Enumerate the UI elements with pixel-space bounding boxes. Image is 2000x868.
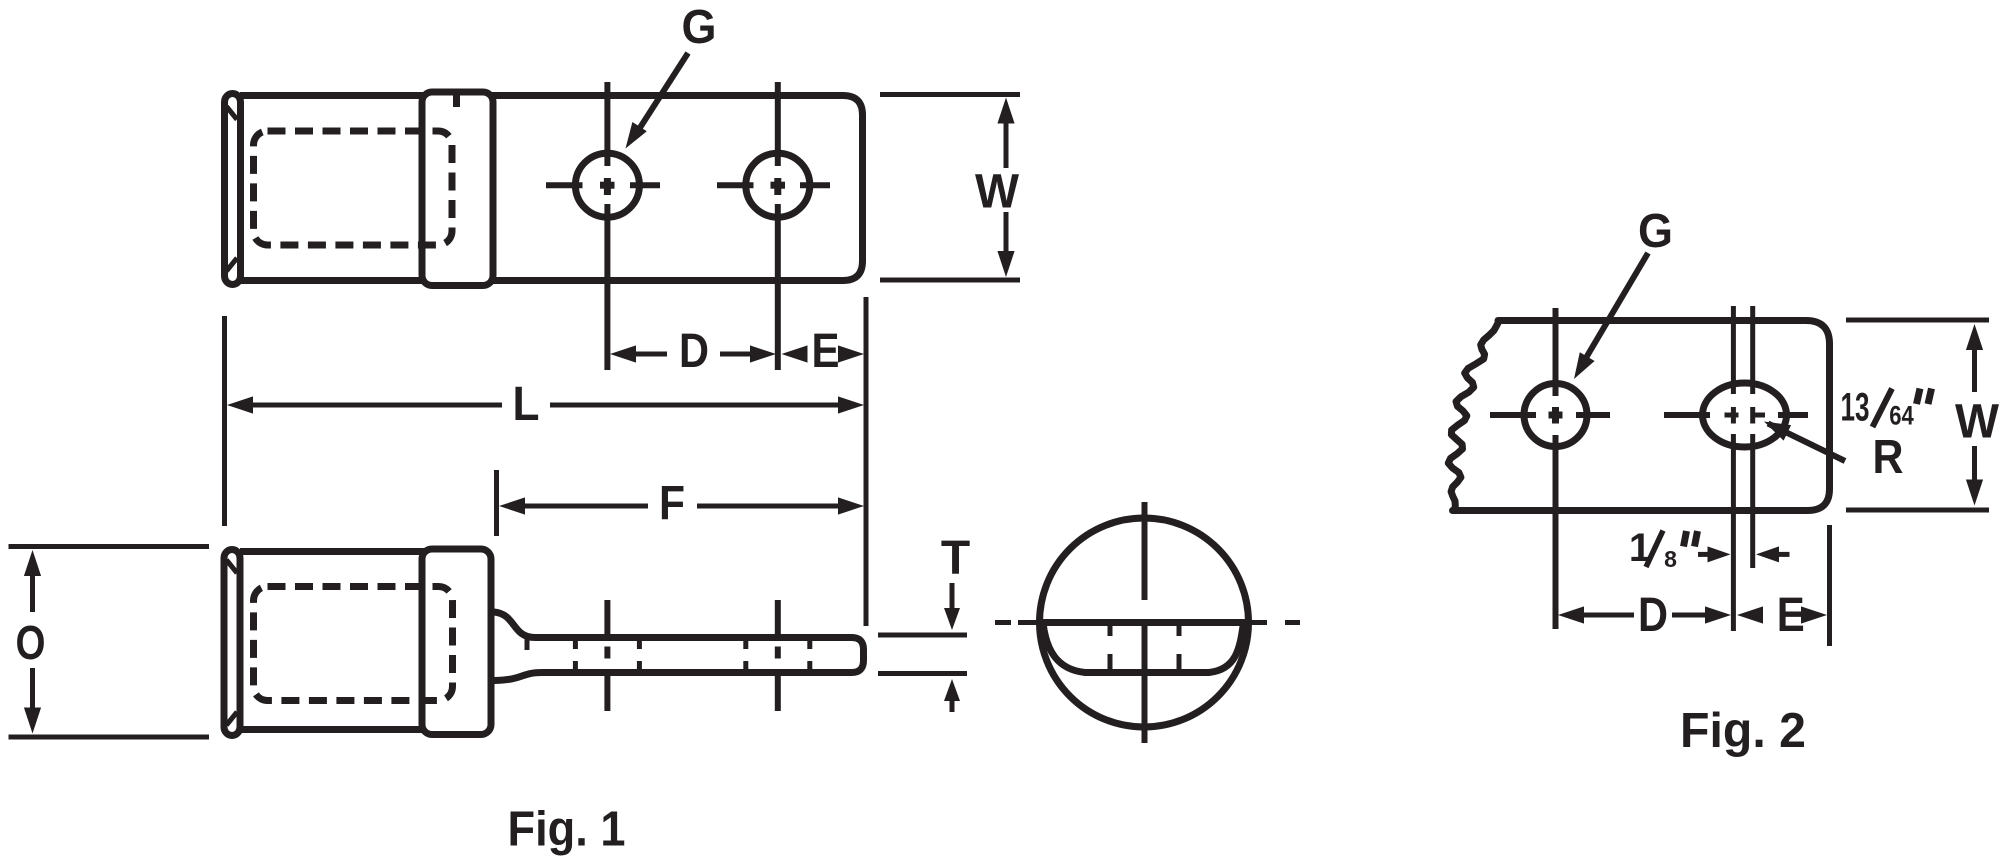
svg-text:E: E [1777, 589, 1805, 642]
hole G1 center plus [600, 182, 615, 189]
svg-text:F: F [659, 477, 685, 530]
side view cap (rolled end) [224, 550, 240, 736]
dimension D (Fig.2) [1558, 606, 1584, 623]
crimp sleeve band (top view) [422, 92, 493, 286]
tongue pad outline (top view) [480, 96, 863, 281]
right witness line (pad edge, Fig.1) [864, 297, 869, 626]
svg-text:Fig. 1: Fig. 1 [508, 803, 626, 857]
svg-text:G: G [1638, 205, 1673, 258]
dimension W (Fig.2) extension lines [1846, 318, 1989, 323]
hole centerlines crossing tongue (side view) [604, 600, 610, 634]
end view vertical centerline [1142, 502, 1148, 600]
Fig.2 hole G circle [1524, 384, 1587, 447]
cap roll tick top [227, 107, 238, 120]
barrel bottom edge (top view) [240, 277, 430, 284]
hole G1 vertical centerline / witness [604, 82, 610, 166]
Fig.2 pad outline with break line [1448, 321, 1829, 511]
dimension L line [227, 396, 253, 413]
Fig.2 hole G vertical centerline / witness [1553, 308, 1559, 396]
side cap tick bottom [227, 712, 238, 725]
side neck and tongue outline [494, 612, 864, 681]
svg-text:D: D [1638, 589, 1668, 642]
dimension D (Fig.1) [610, 345, 636, 362]
Fig.1 top view: insulation cap (rolled left end) [225, 94, 241, 285]
svg-text:L: L [513, 378, 540, 431]
hole G1b circle (top view, second hole) [746, 153, 810, 217]
1/8 inch arrows [1698, 552, 1710, 557]
dimension E (Fig.2) [1737, 606, 1763, 623]
hidden hole edge ticks on tongue [573, 640, 578, 650]
end view horizontal centerline (dash-dot) [995, 620, 1011, 625]
dimension F line [499, 497, 525, 514]
Fig.2 slot left edge line [1731, 306, 1736, 394]
leader G (Fig.2) [1580, 253, 1648, 368]
svg-text:D: D [679, 325, 709, 378]
side crimp sleeve band [422, 549, 491, 735]
hole G1 horizontal crosshair [546, 182, 583, 188]
dimension L witness left [222, 316, 227, 526]
svg-text:8: 8 [1664, 546, 1677, 572]
svg-text:W: W [975, 166, 1020, 219]
Fig.2 slotted hole (ellipse) [1703, 383, 1787, 447]
dimension F witness [494, 470, 499, 536]
end view hidden seam dashes [1108, 626, 1113, 637]
leader G (Fig.1) [634, 53, 688, 137]
hole G1b center plus [771, 182, 786, 189]
end view circle [1040, 518, 1249, 727]
dimension W (Fig.2) arrows [1966, 324, 1983, 350]
svg-text:E: E [812, 325, 840, 378]
hole G1 circle (top view) [575, 153, 639, 217]
svg-text:W: W [1955, 396, 2000, 449]
svg-text:G: G [682, 1, 717, 54]
side hidden wire barrel (dashed) [254, 587, 453, 701]
hole G1b vertical centerline / witness [775, 82, 781, 166]
svg-text:Fig. 2: Fig. 2 [1680, 704, 1806, 758]
Fig.2 hole G horizontal crosshair [1490, 412, 1536, 418]
svg-text:13: 13 [1841, 386, 1870, 430]
Fig.2 slot right edge line [1750, 306, 1755, 394]
Fig.2 hole G center plus [1549, 412, 1563, 419]
barrel top edge (top view) [240, 92, 430, 99]
hidden seam dash in band [453, 96, 460, 108]
dimension E (Fig.1) [782, 345, 808, 362]
dimension T extension lines [878, 633, 967, 638]
Fig.2 right witness line [1827, 525, 1832, 646]
dimension O arrows [24, 550, 41, 576]
end view crimped barrel cross-section (boat shape) [1043, 623, 1244, 673]
tongue tick at neck [525, 639, 530, 650]
side barrel bottom edge [240, 726, 430, 733]
Fig.2 slotted hole horizontal centerline [1664, 412, 1710, 418]
svg-text:64: 64 [1889, 401, 1914, 431]
hole G1b horizontal crosshair [717, 182, 754, 188]
dimension O extension lines [9, 544, 210, 549]
svg-text:R: R [1873, 431, 1904, 484]
hidden wire barrel (dashed, top view) [254, 131, 453, 245]
dimension W (Fig.1) extension lines [880, 92, 1020, 97]
leader R [1768, 424, 1845, 462]
dimension T arrows [950, 583, 955, 608]
svg-text:O: O [16, 617, 46, 670]
dimension W (Fig.1) arrows and line [997, 98, 1014, 124]
cap roll tick bottom [227, 258, 238, 271]
side barrel top edge [240, 548, 430, 555]
Fig.2 slot center plus dashes (horizontal) [1725, 413, 1739, 418]
side cap tick top [227, 560, 238, 573]
svg-text:T: T [941, 532, 970, 585]
